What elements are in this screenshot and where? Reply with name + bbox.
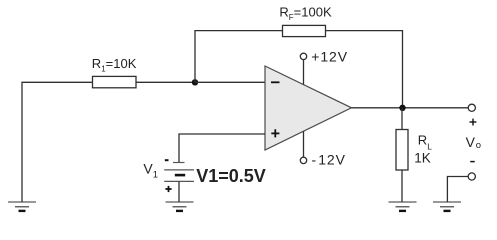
label battery minus polarity (165, 159, 169, 161)
wire battery to ground (178, 181, 180, 202)
terminal +12V (300, 53, 306, 59)
wire -12V supply (303, 131, 305, 157)
resistor R1 (93, 76, 137, 87)
node output junction (399, 105, 405, 111)
label minus (output polarity) (470, 161, 474, 163)
label plus (output polarity) (470, 119, 477, 126)
ground (RL) (389, 202, 417, 211)
terminal Vo minus (468, 173, 475, 180)
wire input left: vertical drop and horizontal to R1 (22, 82, 93, 202)
op-amp minus input symbol (271, 81, 280, 83)
svg-text:RF=100K: RF=100K (279, 5, 332, 23)
wire feedback riser and top run to RF (195, 31, 283, 83)
terminal Vo plus (468, 104, 475, 111)
svg-text:1K: 1K (414, 151, 431, 166)
node inverting-input junction (192, 79, 198, 85)
svg-text:V1=0.5V: V1=0.5V (196, 166, 266, 186)
wire Vo minus terminal to ground (447, 177, 468, 203)
wire RF to output node (top-right corner, down) (326, 31, 403, 108)
svg-text:R1=10K: R1=10K (92, 56, 137, 74)
svg-text:-12V: -12V (312, 152, 346, 168)
svg-text:+12V: +12V (311, 48, 348, 64)
ground (battery) (166, 202, 194, 211)
wire RL to ground (401, 170, 403, 202)
wire R1 to junction (136, 81, 195, 83)
wire output node down to RL (401, 108, 403, 130)
battery V1 (164, 163, 194, 182)
wire junction to op-amp inverting input (195, 81, 265, 83)
ground (Vo return) (433, 202, 461, 211)
resistor RL (396, 130, 408, 171)
wire battery to op-amp non-inverting input (179, 134, 265, 162)
label battery plus polarity (165, 186, 171, 192)
terminal -12V (300, 157, 306, 163)
wire op-amp output to terminal (352, 107, 469, 109)
op-amp U1 (265, 66, 352, 150)
wire +12V supply (303, 60, 305, 85)
op-amp plus input symbol (271, 129, 279, 137)
ground (input, bottom-left) (8, 202, 36, 211)
resistor RF (283, 25, 326, 36)
